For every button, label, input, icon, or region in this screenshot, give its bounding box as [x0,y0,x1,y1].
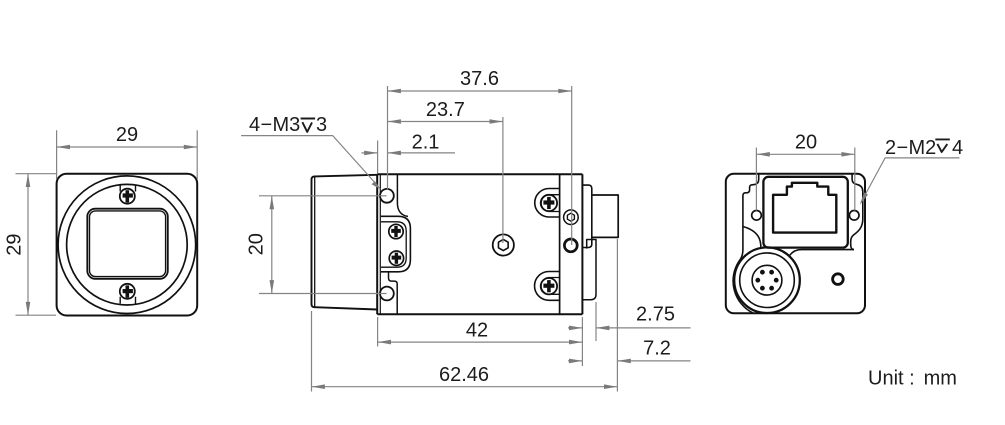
tripod hex hole inner [498,239,508,250]
svg-text:−: − [897,137,909,159]
power connector pin circle [752,265,782,295]
dimension 29 top: dim line [57,146,198,148]
label 4-M3 depth 3 leader [241,136,377,186]
svg-text:2.1: 2.1 [412,131,440,153]
rear body square [726,174,865,313]
body right edge [559,174,561,314]
bottom-left M3 hole [380,287,394,301]
bottom-right screw [541,278,557,294]
dim 20 left line [271,196,273,294]
top screw bracket [120,185,135,192]
bottom screw [120,284,135,299]
svg-text:M2: M2 [909,137,937,159]
dim 42 extensions [378,317,583,366]
svg-text:23.7: 23.7 [426,99,465,121]
dimension 29 left: dim line [27,174,29,316]
rear panel left contour [733,174,759,313]
svg-text:Unit:mm: Unit:mm [868,368,957,390]
svg-text:M3: M3 [273,114,301,136]
body top edge [377,173,582,175]
dim 42 line [378,341,583,343]
dim 7.2 lines + arrows [568,360,691,362]
RJ45 jack cutout [773,183,836,233]
connector lower housing [582,240,596,300]
svg-text:42: 42 [466,319,488,341]
M2 screw hole left [752,211,762,221]
dim 2.75 extension [595,302,597,341]
svg-text:2: 2 [885,137,896,159]
RJ45 housing [763,177,847,248]
dimension 29 left: extension lines [16,174,57,316]
rear plate thick ring [564,239,577,252]
svg-text:29: 29 [116,124,138,146]
side plate stadium outer [381,216,410,271]
bottom-right screw pad outer [535,272,560,301]
tripod hex hole outer [493,234,514,255]
bottom screw bracket [120,297,135,304]
svg-text:4: 4 [249,114,260,136]
dim 2.1 extension [377,141,379,174]
svg-text:4: 4 [952,137,963,159]
RJ45 shroud block [592,195,618,237]
M2 screw hole right [849,211,859,221]
dim 20 rear extensions [756,148,854,211]
rear panel ledge right of connector [789,250,854,256]
lens barrel [312,175,378,310]
sensor window inner [90,211,166,277]
top-right screw pad outer [535,189,560,218]
dim 20 left extensions [259,196,387,294]
svg-text:20: 20 [246,233,268,255]
dim 37.6 extension left [387,86,389,190]
dim 20 rear line [756,153,854,155]
power connector middle ring [740,253,795,308]
dim 2.75 lines + arrows [568,327,691,329]
label 2-M2 depth 4 leader [861,158,960,203]
front plate edge (thick) [376,174,378,314]
power connector outer [734,247,800,313]
side screw lower [389,251,403,265]
svg-text:37.6: 37.6 [460,68,499,90]
dim 23.7 line [388,121,503,123]
rear plate right edge [581,174,583,314]
side screw upper [389,224,403,238]
dim 23.7 extension [502,117,504,243]
rear panel left S-curve [743,227,761,249]
lens barrel front ring line [314,177,316,307]
svg-text:29: 29 [4,233,26,255]
top-right screw [541,195,557,211]
front body square [57,174,198,316]
svg-text:−: − [261,114,273,136]
dim 37.6 extension right [571,86,573,245]
dim 62.46 extensions [312,239,618,392]
power connector pins [755,270,778,291]
side plate stadium inner [381,222,406,267]
lens mount outer circle [58,176,196,314]
svg-text:2.75: 2.75 [636,303,675,325]
status LED [833,274,844,285]
body bottom edge [377,313,582,315]
rear plate small ring [564,210,579,225]
sensor window outer [87,209,168,279]
front plate inner line [379,174,381,314]
rear tab [582,185,591,247]
dim 62.46 line [312,386,618,388]
rear panel right contour [851,174,863,249]
svg-text:7.2: 7.2 [643,338,671,360]
dimension 29 top: extension lines [57,130,198,179]
svg-text:3: 3 [316,114,327,136]
svg-text:62.46: 62.46 [439,364,489,386]
svg-text:20: 20 [795,131,817,153]
lens mount inner circle [67,184,188,305]
top-left M3 hole [380,189,394,203]
dim 2.1 lines + arrows [362,152,456,154]
left bracket bottom tab [389,272,398,315]
top-right screw pad inner [541,195,560,212]
top screw [120,189,135,204]
bottom-right screw pad inner [541,278,560,295]
dim 37.6 line [388,90,572,92]
left bracket top tab [397,174,408,216]
